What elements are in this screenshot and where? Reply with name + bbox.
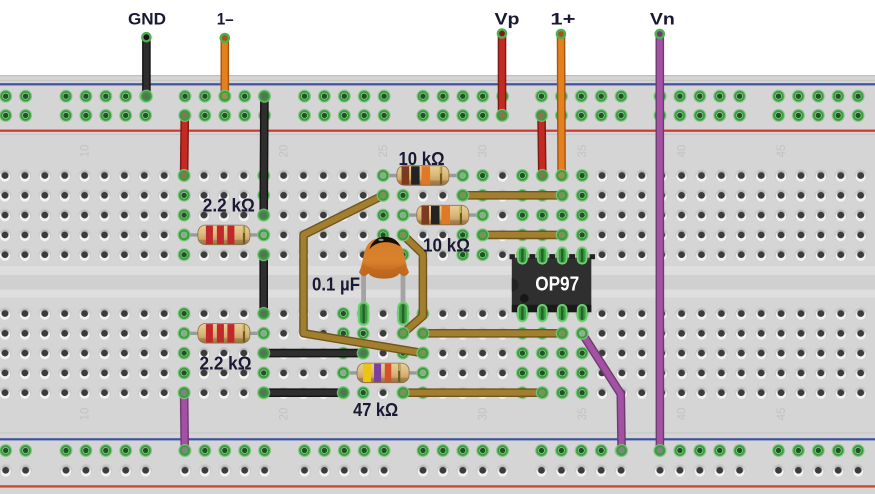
main grid holes (unconnected): [0, 169, 867, 399]
node: column 35 lower strip (connected, green holes): [576, 307, 589, 399]
wire 1+ (orange, to row a col 34): [555, 29, 568, 182]
svg-text:45: 45: [776, 145, 788, 158]
svg-text:OP97: OP97: [535, 274, 579, 296]
svg-text:10 kΩ: 10 kΩ: [399, 149, 445, 169]
node: column 34 upper strip (connected, green holes): [556, 169, 569, 261]
node: column 15 lower strip (connected, green holes): [178, 307, 191, 399]
capacitor C1 0.1uF ceramic disc (legs cols 24 and 26, row f): [359, 237, 409, 325]
U1 pin 9 (top row e, col 33): [538, 247, 547, 263]
node: column 33 upper strip (connected, green holes): [536, 169, 549, 261]
resistor R3 2.2k ohm (row d, cols 15-19): [178, 225, 271, 245]
resistor R5 47k ohm (row i, cols 23-27): [337, 363, 430, 383]
node: column 27 lower strip (connected, green holes): [416, 307, 429, 399]
U1 pin 11 (top row e, col 35): [578, 247, 587, 263]
wire purple jumper row j col 15 to bottom rail: [178, 386, 192, 457]
svg-text:40: 40: [677, 145, 689, 158]
column number labels top: [80, 145, 789, 158]
bottom blue rail line: [0, 438, 875, 440]
wire black jumper row e to row f col 19: [257, 248, 270, 320]
resistor R2 10k ohm (row c, cols 26-30): [396, 205, 489, 225]
node: column 23 lower strip (connected, green holes): [337, 307, 350, 399]
node: top power rails (both strips connected, green): [0, 90, 865, 122]
wire tan jumper row b col 29 to col 34: [456, 189, 569, 202]
wire tan jumper row g col 27 to col 34: [416, 327, 569, 340]
U1 pin 4 (bottom row f, col 35): [578, 305, 587, 321]
wire tan bent jumper row d col 26 to row g col 26: [396, 228, 423, 340]
wire Vn (purple, to bottom rail): [653, 29, 666, 457]
node: column 33 lower strip (connected, green holes): [536, 307, 549, 399]
U1 pin 3 (bottom row f, col 34): [558, 305, 567, 321]
node: column 35 upper strip (connected, green holes): [576, 169, 589, 261]
resistor R4 2.2k ohm (row g, cols 15-19): [178, 324, 271, 344]
node: column 26 lower strip (connected, green holes): [396, 307, 409, 399]
node: column 34 lower strip (connected, green holes): [556, 307, 569, 399]
svg-text:Vp: Vp: [495, 10, 520, 29]
node: column 32 upper strip (connected, green holes): [516, 169, 529, 261]
center channel groove: [0, 266, 875, 298]
svg-text:45: 45: [776, 408, 788, 421]
U1 pin 2 (bottom row f, col 33): [538, 305, 547, 321]
svg-text:0.1 µF: 0.1 µF: [312, 275, 360, 295]
wire black jumper top rail to row c col 19: [257, 90, 271, 222]
wire purple jumper row g col 35 to bottom rail: [576, 327, 629, 457]
svg-text:30: 30: [478, 408, 490, 421]
U1 pin 8 (top row e, col 32): [518, 247, 527, 263]
svg-text:2.2 kΩ: 2.2 kΩ: [200, 354, 252, 374]
node: column 32 lower strip (connected, green holes): [516, 307, 529, 399]
wire tan bent jumper row b col 25 to row h col 27: [304, 189, 430, 360]
wire 1- (orange, to top rail): [218, 33, 231, 103]
top blue rail line: [0, 83, 875, 85]
wire red jumper rail row2 to row a col 15: [178, 109, 192, 182]
top red rail line: [0, 130, 875, 132]
node: column 26 upper strip (connected, green holes): [396, 169, 409, 261]
svg-text:20: 20: [279, 408, 291, 421]
wire red jumper rail row2 to row a col 33: [535, 109, 549, 182]
U1 pin 10 (top row e, col 34): [558, 247, 567, 263]
svg-text:10: 10: [80, 145, 92, 158]
node: column 19 lower strip (connected, green holes): [257, 307, 270, 399]
node: column 24 lower strip (connected, green holes): [357, 307, 370, 399]
wire tan jumper row d col 30 to col 34: [476, 228, 569, 241]
wire black jumper row j col 19 to col 23: [257, 386, 350, 399]
node: column 29 upper strip (connected, green holes): [456, 169, 469, 261]
node: column 30 upper strip (connected, green holes): [476, 169, 489, 261]
U1 pin 1 (bottom row f, col 32): [518, 305, 527, 321]
node: column 25 upper strip (connected, green holes): [377, 169, 390, 261]
svg-text:1+: 1+: [550, 10, 575, 29]
svg-text:GND: GND: [128, 10, 166, 29]
svg-text:30: 30: [478, 145, 490, 158]
svg-text:25: 25: [378, 145, 390, 158]
bottom rail separator line: [0, 432, 875, 433]
bottom red rail line: [0, 485, 875, 487]
svg-text:1–: 1–: [217, 10, 234, 29]
wire Vp (red, to top power rail row 2): [495, 28, 508, 122]
svg-text:35: 35: [577, 145, 589, 158]
node: column 19 upper strip (connected, green holes): [257, 169, 270, 261]
wire tan jumper row j col 26 to col 33: [396, 386, 549, 399]
wire GND (black, to top ground rail): [140, 32, 153, 103]
node: column 15 upper strip (connected, green holes): [178, 169, 191, 261]
svg-text:2.2 kΩ: 2.2 kΩ: [203, 196, 255, 216]
svg-text:10: 10: [80, 408, 92, 421]
svg-text:20: 20: [279, 145, 291, 158]
svg-text:40: 40: [677, 408, 689, 421]
resistor R1 10k ohm (row a, cols 25-29): [377, 166, 470, 186]
svg-text:10 kΩ: 10 kΩ: [423, 236, 470, 256]
wire black jumper row h col 19 to col 24: [257, 347, 370, 360]
svg-text:Vn: Vn: [650, 10, 675, 29]
column number labels bottom: [80, 408, 789, 421]
top rail separator line: [0, 80, 875, 81]
node: bottom power rails (upper strip connected green, lower unused): [0, 444, 865, 477]
svg-text:47 kΩ: 47 kΩ: [353, 400, 398, 420]
op-amp U1 OP97 DIP-8: [510, 247, 596, 321]
svg-text:35: 35: [577, 408, 589, 421]
